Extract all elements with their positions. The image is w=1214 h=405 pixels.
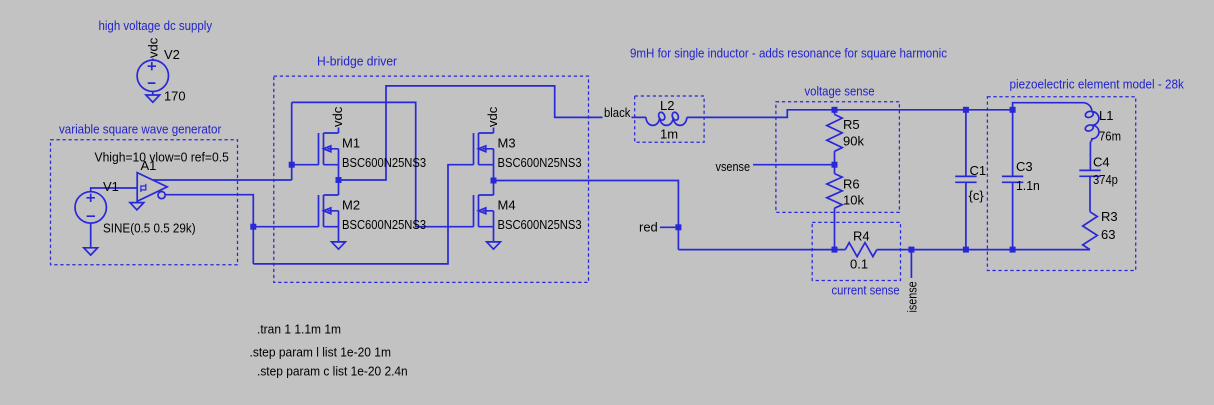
svg-text:{c}: {c} [969, 188, 985, 203]
svg-text:10k: 10k [843, 193, 864, 208]
svg-text:.tran 1 1.1m 1m: .tran 1 1.1m 1m [257, 322, 341, 337]
svg-text:0.1: 0.1 [850, 257, 868, 272]
svg-text:M1: M1 [342, 136, 360, 151]
svg-text:M3: M3 [498, 136, 516, 151]
svg-text:BSC600N25NS3: BSC600N25NS3 [498, 155, 582, 170]
svg-text:voltage sense: voltage sense [805, 84, 875, 99]
svg-text:vdc: vdc [330, 106, 345, 127]
svg-text:red: red [639, 220, 658, 235]
svg-text:H-bridge driver: H-bridge driver [317, 54, 398, 69]
svg-text:R6: R6 [843, 177, 860, 192]
svg-text:1.1n: 1.1n [1016, 178, 1040, 193]
svg-text:L2: L2 [660, 98, 674, 113]
svg-text:R4: R4 [853, 229, 870, 244]
svg-text:1m: 1m [660, 127, 678, 142]
svg-text:63: 63 [1101, 227, 1115, 242]
svg-text:76m: 76m [1099, 129, 1121, 144]
svg-text:V2: V2 [164, 47, 180, 62]
svg-text:.step param l list 1e-20 1m: .step param l list 1e-20 1m [250, 345, 392, 360]
svg-text:C1: C1 [970, 163, 987, 178]
svg-text:V1: V1 [103, 179, 119, 194]
svg-text:R3: R3 [1101, 209, 1118, 224]
svg-text:SINE(0.5 0.5 29k): SINE(0.5 0.5 29k) [103, 221, 196, 236]
svg-text:BSC600N25NS3: BSC600N25NS3 [342, 217, 426, 232]
svg-text:vdc: vdc [146, 37, 161, 58]
svg-text:M2: M2 [342, 198, 360, 213]
svg-text:BSC600N25NS3: BSC600N25NS3 [342, 155, 426, 170]
svg-text:black: black [604, 105, 631, 120]
svg-text:9mH for single inductor - adds: 9mH for single inductor - adds resonance… [630, 45, 947, 60]
svg-text:M4: M4 [498, 198, 516, 213]
svg-text:vdc: vdc [485, 106, 500, 127]
svg-text:90k: 90k [843, 134, 864, 149]
svg-text:C3: C3 [1016, 159, 1033, 174]
svg-text:L1: L1 [1099, 108, 1113, 123]
svg-text:R5: R5 [843, 117, 860, 132]
svg-text:vsense: vsense [716, 159, 751, 174]
svg-text:piezoelectric element model -: piezoelectric element model - 28k [1010, 77, 1185, 92]
svg-text:BSC600N25NS3: BSC600N25NS3 [498, 217, 582, 232]
svg-text:374p: 374p [1093, 172, 1118, 187]
svg-text:isense: isense [905, 281, 920, 312]
svg-text:C4: C4 [1093, 155, 1110, 170]
svg-text:.step param c list 1e-20 2.4n: .step param c list 1e-20 2.4n [257, 364, 408, 379]
svg-text:170: 170 [164, 89, 186, 104]
svg-text:variable square wave generator: variable square wave generator [59, 122, 222, 137]
svg-text:Vhigh=10 vlow=0 ref=0.5: Vhigh=10 vlow=0 ref=0.5 [95, 150, 229, 165]
svg-text:high voltage dc supply: high voltage dc supply [99, 18, 213, 33]
svg-text:current sense: current sense [832, 283, 900, 298]
